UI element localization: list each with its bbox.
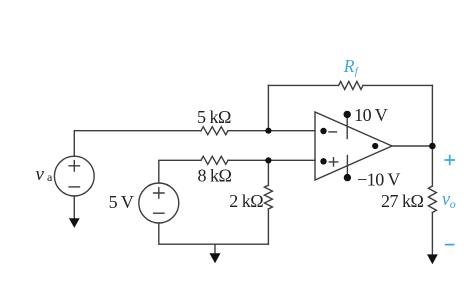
node dot inverting junction (265, 128, 271, 134)
wire feedback left vertical (267, 85, 269, 130)
label 10 V (354, 105, 388, 125)
svg-text:2 kΩ: 2 kΩ (229, 191, 263, 211)
label 2 kOhm (229, 191, 263, 211)
label 8 kOhm (198, 166, 232, 186)
resistor 27k zigzag (428, 186, 436, 213)
svg-text:v: v (36, 164, 45, 185)
node dot op-amp plus terminal (320, 158, 326, 164)
wire va bottom stem (73, 196, 75, 219)
wire input top from va to op-amp inverting input (74, 131, 315, 157)
svg-text:f: f (355, 66, 360, 78)
voltage source va circle (54, 156, 94, 196)
label va (36, 164, 54, 185)
label plus output (444, 155, 455, 166)
svg-text:27 kΩ: 27 kΩ (381, 191, 424, 211)
5V plus sign (154, 188, 164, 198)
svg-text:a: a (47, 170, 53, 184)
node dot noninverting junction (265, 157, 271, 163)
ground arrow bottom center stem (214, 244, 216, 253)
resistor 2k zigzag (264, 185, 272, 209)
label 27 kOhm (381, 191, 424, 211)
op-amp noninverting sign (329, 158, 337, 166)
node dot op-amp output (372, 143, 378, 149)
va minus sign (69, 186, 79, 188)
voltage source 5V circle (139, 183, 179, 223)
svg-text:8 kΩ: 8 kΩ (198, 166, 232, 186)
wire feedback right vertical (431, 85, 433, 146)
ground arrow below va (69, 218, 80, 228)
ground arrow bottom center head (210, 253, 221, 263)
op-amp negative supply pin wire (346, 156, 348, 178)
svg-text:5 kΩ: 5 kΩ (197, 107, 231, 127)
svg-text:5 V: 5 V (109, 192, 134, 212)
node dot supply -10V (344, 174, 351, 181)
label minus output (445, 244, 455, 246)
label 5 V (109, 192, 134, 212)
svg-text:R: R (343, 56, 355, 76)
svg-text:o: o (450, 197, 456, 211)
label Rf (343, 56, 360, 78)
wire 5V top to 8k to op-amp noninverting input (159, 160, 315, 183)
op-amp positive supply pin wire (346, 114, 348, 138)
node dot supply 10V (344, 111, 351, 118)
node dot op-amp minus terminal (320, 128, 326, 134)
resistor 5k zigzag (201, 127, 228, 135)
wire 5V bottom to ground rail (159, 223, 269, 244)
va plus sign (69, 161, 79, 171)
label vo (442, 189, 456, 211)
wire 27k vertical segments (431, 146, 433, 255)
ground arrow below 27k (427, 254, 438, 264)
wire 2k vertical segments (267, 160, 269, 244)
node dot output junction (429, 143, 436, 150)
wire op-amp output (392, 145, 432, 147)
svg-text:10 V: 10 V (354, 105, 388, 125)
5V minus sign (154, 212, 164, 214)
label 5 kOhm (197, 107, 231, 127)
wire feedback top horizontal (268, 84, 432, 86)
op-amp inverting sign (329, 131, 336, 133)
svg-text:−10 V: −10 V (357, 169, 400, 189)
resistor 8k zigzag (201, 156, 228, 164)
label -10 V (357, 169, 400, 189)
op-amp U1 triangle (315, 112, 392, 180)
resistor Rf zigzag (339, 81, 363, 89)
